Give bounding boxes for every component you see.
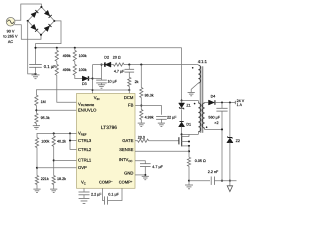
svg-text:VC: VC bbox=[81, 180, 86, 186]
svg-text:Z1: Z1 bbox=[186, 104, 190, 108]
svg-text:CTRL1: CTRL1 bbox=[78, 158, 92, 163]
svg-text:2k: 2k bbox=[135, 80, 139, 84]
svg-text:OVP: OVP bbox=[78, 165, 87, 170]
svg-text:86.3k: 86.3k bbox=[145, 94, 154, 98]
svg-text:4.7 µF: 4.7 µF bbox=[114, 69, 125, 73]
svg-text:D2: D2 bbox=[104, 55, 109, 59]
svg-text:100k: 100k bbox=[41, 139, 49, 143]
svg-text:INTVCC: INTVCC bbox=[119, 157, 133, 163]
svg-text:FB: FB bbox=[128, 103, 134, 108]
svg-text:EN/UVLO: EN/UVLO bbox=[78, 108, 97, 113]
svg-text:GATE: GATE bbox=[122, 138, 133, 143]
svg-text:to 265 V: to 265 V bbox=[3, 35, 18, 39]
svg-text:560 µF: 560 µF bbox=[208, 116, 220, 120]
svg-text:20 Ω: 20 Ω bbox=[113, 55, 121, 59]
svg-text:SENSE: SENSE bbox=[119, 147, 133, 152]
svg-text:18.2k: 18.2k bbox=[57, 177, 66, 181]
svg-text:AC: AC bbox=[8, 40, 14, 44]
svg-text:1M: 1M bbox=[41, 100, 46, 104]
svg-text:1 A: 1 A bbox=[237, 103, 243, 107]
svg-text:22 µF: 22 µF bbox=[167, 115, 177, 119]
svg-text:95.3k: 95.3k bbox=[41, 116, 50, 120]
svg-text:D3: D3 bbox=[82, 82, 87, 86]
svg-text:2.2 nF: 2.2 nF bbox=[208, 170, 219, 174]
svg-text:4.99k: 4.99k bbox=[145, 115, 154, 119]
svg-text:LT3796: LT3796 bbox=[101, 125, 117, 131]
svg-text:VIN,SENSE: VIN,SENSE bbox=[78, 101, 94, 107]
svg-text:0.1 µF: 0.1 µF bbox=[44, 64, 56, 69]
svg-text:10 µF: 10 µF bbox=[108, 80, 118, 84]
svg-text:4.7 µF: 4.7 µF bbox=[152, 165, 163, 169]
svg-text:40.2k: 40.2k bbox=[57, 139, 66, 143]
svg-text:×2: ×2 bbox=[214, 121, 218, 125]
svg-text:CTRL3: CTRL3 bbox=[78, 138, 92, 143]
svg-text:4:1:1: 4:1:1 bbox=[198, 59, 208, 64]
svg-text:DCM: DCM bbox=[124, 95, 134, 100]
svg-text:VREF: VREF bbox=[78, 131, 87, 137]
svg-text:COMP−: COMP− bbox=[99, 180, 113, 185]
svg-text:0.1 µF: 0.1 µF bbox=[108, 192, 119, 196]
svg-text:100k: 100k bbox=[79, 54, 87, 58]
svg-text:90 V: 90 V bbox=[7, 29, 15, 33]
svg-text:221k: 221k bbox=[41, 177, 49, 181]
svg-text:Z2: Z2 bbox=[236, 139, 240, 143]
svg-text:GND: GND bbox=[124, 170, 133, 175]
svg-text:0.05 Ω: 0.05 Ω bbox=[195, 159, 206, 163]
svg-text:D4: D4 bbox=[211, 94, 216, 98]
svg-text:499k: 499k bbox=[63, 54, 71, 58]
svg-text:D1: D1 bbox=[186, 122, 191, 126]
svg-text:499k: 499k bbox=[63, 68, 71, 72]
svg-text:COMP+: COMP+ bbox=[119, 180, 133, 185]
svg-text:VIN: VIN bbox=[94, 95, 100, 101]
svg-text:CTRL2: CTRL2 bbox=[78, 147, 92, 152]
svg-text:2.2 µF: 2.2 µF bbox=[91, 193, 102, 197]
svg-text:20.0: 20.0 bbox=[138, 136, 145, 140]
svg-text:100k: 100k bbox=[79, 68, 87, 72]
